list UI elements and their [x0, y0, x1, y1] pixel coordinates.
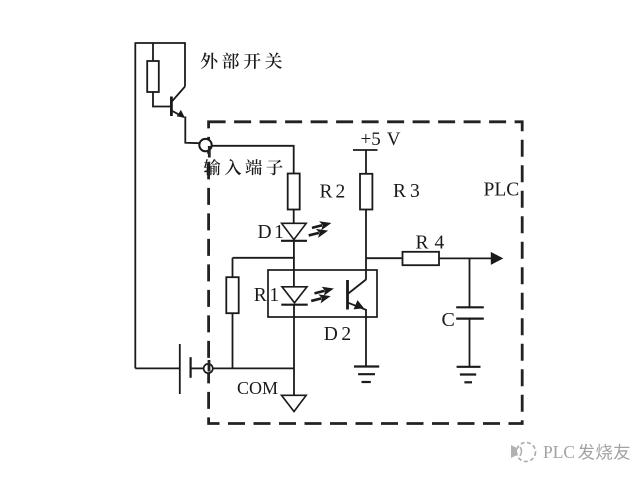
dash segment through input terminal circle: [208, 146, 211, 158]
wire: node to capacitor top: [469, 258, 471, 307]
svg-text:D1: D1: [258, 222, 284, 243]
svg-text:COM: COM: [237, 378, 278, 398]
D1 light arrows: [306, 219, 334, 240]
resistor R1: [226, 277, 238, 313]
watermark text PLC发烧友: [543, 442, 630, 462]
wire: horizontal collector column to R4: [366, 257, 403, 259]
svg-text:PLC: PLC: [484, 179, 520, 200]
node: COM terminal circle: [204, 364, 213, 373]
optocoupler internal LED: [281, 287, 307, 305]
resistor R4: [403, 252, 440, 265]
output arrow: [491, 252, 504, 265]
svg-text:R1: R1: [254, 285, 279, 306]
wire: R4 to output arrow: [439, 257, 493, 259]
resistor R3: [360, 174, 372, 210]
watermark logo: [511, 443, 536, 462]
svg-text:PLC: PLC: [543, 442, 575, 462]
battery (short plate): [190, 357, 192, 378]
resistor R2: [288, 174, 300, 210]
COM terminal arrow (open triangle): [282, 395, 307, 411]
resistor (external, unlabelled): [147, 61, 159, 92]
svg-text:R2: R2: [320, 182, 346, 203]
wire: optocoupler LED cathode down to COM arrow: [293, 305, 295, 396]
transistor (external switch NPN): [171, 87, 185, 118]
battery (long plate): [179, 344, 181, 394]
wire: capacitor bottom to ground: [469, 319, 471, 367]
LED D1 (diode triangle + bar): [281, 223, 307, 241]
wire: R2 bottom to D1: [293, 210, 295, 224]
wire: input terminal to R2 top: [212, 146, 294, 174]
wire: external resistor top lead: [152, 43, 154, 61]
label 输入端子 (input terminal): [204, 159, 283, 175]
capacitor C: [456, 307, 484, 318]
wire: external resistor bottom lead to transistor base: [153, 92, 171, 107]
wire: emitter down to input terminal: [185, 117, 199, 144]
wire: battery to COM terminal: [191, 367, 204, 369]
wire: R1 bottom lead to COM rail: [232, 313, 234, 368]
ground (under capacitor): [457, 367, 481, 383]
optocoupler phototransistor: [348, 280, 367, 310]
label 外部开关 (external switch): [201, 52, 282, 69]
optocoupler light arrows: [308, 284, 336, 305]
wire: horizontal R1 top to D1/D2 column: [233, 257, 295, 259]
PLC enclosure (dashed box): [209, 122, 523, 424]
wire: R1 top lead: [232, 258, 234, 277]
optocoupler D2 box: [268, 270, 377, 317]
wire: R3 bottom to phototransistor collector: [365, 210, 367, 280]
svg-text:D2: D2: [324, 324, 351, 345]
node: input terminal circle: [199, 139, 211, 151]
wire: collector vertical drop: [184, 42, 186, 86]
wire: left rail to battery: [135, 367, 180, 369]
wire: COM horizontal rail: [213, 367, 295, 369]
wire: +5V to R3: [365, 150, 367, 174]
ground (under phototransistor): [354, 367, 379, 383]
wire: top horizontal: [135, 42, 186, 44]
wire: D1 to optocoupler LED: [293, 241, 295, 287]
svg-text:C: C: [442, 309, 455, 331]
wire: phototransistor emitter to ground: [365, 309, 367, 367]
dash segment through COM terminal circle: [208, 360, 211, 372]
svg-text:+5V: +5V: [361, 129, 401, 150]
+5V supply: [353, 129, 401, 150]
wire: left rail vertical: [134, 43, 136, 368]
